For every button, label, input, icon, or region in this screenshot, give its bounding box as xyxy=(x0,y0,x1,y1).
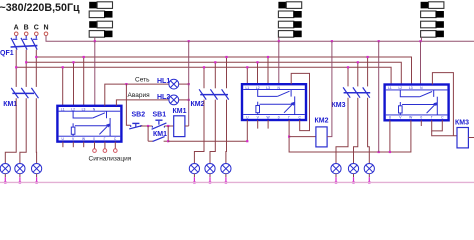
lamp EL3 xyxy=(31,164,41,174)
terminal B xyxy=(24,32,28,36)
wire U2 pin5 to KM2 coil and N rail xyxy=(289,120,411,152)
contact KM1 aux xyxy=(153,137,165,142)
wire bottom neutral line xyxy=(0,181,474,183)
wire KM2 coil left xyxy=(289,136,316,138)
wire KM3 pole 2 to lamp xyxy=(354,98,358,164)
junction N bus x188.7 xyxy=(188,40,190,42)
label Signalizatsiya xyxy=(89,155,132,162)
wire KM1 pole 2 to lamp xyxy=(20,98,26,164)
wire EL5 stub xyxy=(209,174,211,183)
wire tap to KM2 pole x215.3 xyxy=(214,62,216,88)
wire U1 bottom stub W xyxy=(83,142,85,148)
svg-text:КМ3: КМ3 xyxy=(455,120,469,127)
junction tap A U1 xyxy=(62,66,64,68)
lamp EL6 xyxy=(221,164,231,174)
wire KM2 coil to N xyxy=(327,41,332,136)
svg-text:A: A xyxy=(14,24,19,31)
button SB1 xyxy=(152,120,167,129)
wire N to U2 xyxy=(278,41,280,84)
junction EL8 bottom xyxy=(352,181,354,183)
wire tap B to U1 L2 xyxy=(73,62,75,106)
node A phase label xyxy=(14,24,19,31)
junction KM2 tap x215.3 xyxy=(214,61,216,63)
svg-text:SB2: SB2 xyxy=(132,112,146,119)
wire U3 bottom stub 0 xyxy=(420,120,422,126)
svg-text:~380/220В,50Гц: ~380/220В,50Гц xyxy=(0,2,80,14)
wire HL2 to N vertical xyxy=(179,99,189,101)
wire phase B vertical xyxy=(25,50,27,87)
junction U2 tap x257.5 xyxy=(256,61,258,63)
coil KM1 xyxy=(174,116,185,137)
wire KM1 aux right xyxy=(167,126,169,141)
junction HL1 N xyxy=(188,83,190,85)
label KM2 coil xyxy=(315,117,329,124)
lamp EL5 xyxy=(205,164,215,174)
label KM1 coil xyxy=(173,108,187,115)
terminal signal x115.3 xyxy=(114,149,118,153)
label KM1 contactor xyxy=(3,101,17,108)
svg-text:КМ1: КМ1 xyxy=(153,131,167,138)
lamp EL2 xyxy=(15,164,25,174)
terminal signal x104.9 xyxy=(103,149,107,153)
lamp EL1 xyxy=(0,164,10,174)
label Avariya (alarm) xyxy=(128,92,151,99)
svg-text:N: N xyxy=(43,24,48,31)
junction N bus x278.8 xyxy=(278,40,280,42)
wire EL1 stub xyxy=(4,174,6,183)
wire N down from terminal xyxy=(46,36,474,42)
wire tap C to U1 L3 xyxy=(83,57,85,106)
junction U3 pin1 rail xyxy=(389,151,391,153)
label HL1 xyxy=(157,78,170,85)
wire KM1 aux bottom left xyxy=(148,140,153,142)
bypass U3 top pin xyxy=(432,73,453,136)
junction HL2 N xyxy=(188,99,190,101)
wire EL2 stub xyxy=(19,174,21,183)
junction bus B start xyxy=(25,61,27,63)
wire phase A vertical xyxy=(15,50,17,87)
device U2 protection unit xyxy=(242,84,306,120)
junction KM3 tap x357.8 xyxy=(357,61,359,63)
junction SB1 right xyxy=(167,125,169,127)
wire U1 out to HL1 line xyxy=(105,84,169,106)
breaker QF1 pole 2 tick xyxy=(23,38,28,40)
wire tap A to U1 L1 xyxy=(62,67,64,106)
wire EL7 stub xyxy=(335,174,337,183)
wire U1 bottom stub V xyxy=(72,142,74,148)
wire connector X1 to N bus xyxy=(94,37,96,41)
junction SB1 left xyxy=(147,125,149,127)
lamp EL9 xyxy=(364,164,374,174)
wire EL4 stub xyxy=(193,174,195,183)
svg-text:Сеть: Сеть xyxy=(135,76,150,83)
breaker QF1 pole 3 wire top xyxy=(35,36,37,39)
button SB2 xyxy=(129,123,142,128)
svg-text:КМ2: КМ2 xyxy=(315,117,329,124)
wire HL1 to N vertical xyxy=(179,83,189,85)
svg-text:Авария: Авария xyxy=(128,92,151,99)
wire KM2 pole 1 to lamp xyxy=(194,100,204,164)
svg-text:КМ1: КМ1 xyxy=(3,101,17,108)
wire KM3 coil to edge xyxy=(468,137,474,139)
svg-text:L1: L1 xyxy=(388,86,392,90)
contactor KM3 pole x367.6 contact xyxy=(363,87,370,97)
wire N to U3 xyxy=(420,41,422,84)
wire N drop to rail xyxy=(378,41,380,152)
lamp HL2 xyxy=(169,95,179,105)
device U3 protection unit xyxy=(385,85,449,121)
svg-text:L1: L1 xyxy=(61,107,65,111)
junction N bus x378.7 xyxy=(378,40,380,42)
wire phase C vertical xyxy=(35,50,37,87)
wire bus B xyxy=(26,62,401,84)
lamp HL1 xyxy=(169,79,179,89)
wire U2 pin1 down xyxy=(246,120,248,141)
junction KM3 tap x367.6 xyxy=(367,56,369,58)
contactor KM2 pole x226.5 contact xyxy=(222,89,229,99)
svg-text:Г: Г xyxy=(288,115,290,119)
junction EL5 bottom xyxy=(209,181,211,183)
contactor KM2 pole x215.3 contact xyxy=(210,89,217,99)
label KM3 contactor xyxy=(332,102,346,109)
breaker QF1 pole 2 wire top xyxy=(25,36,27,39)
wire tap to KM2 pole x204.0 xyxy=(203,67,205,88)
svg-text:Сигнализация: Сигнализация xyxy=(89,155,132,162)
device U1 protection unit xyxy=(57,106,121,142)
junction EL9 bottom xyxy=(368,181,370,183)
wire KM1 pole 3 to lamp xyxy=(35,98,37,164)
contactor KM3 pole x357.8 contact xyxy=(353,87,360,97)
junction HL1 line SB2 drop xyxy=(125,83,127,85)
svg-text:L3: L3 xyxy=(409,86,413,90)
wire tap to KM3 pole x348.0 xyxy=(347,67,349,86)
node N phase label xyxy=(43,24,48,31)
svg-text:L2: L2 xyxy=(256,86,260,90)
svg-text:L2: L2 xyxy=(398,86,402,90)
wire EL6 stub xyxy=(225,174,227,183)
svg-text:HL2: HL2 xyxy=(157,94,170,101)
svg-text:L3: L3 xyxy=(82,107,86,111)
lamp EL8 xyxy=(348,164,358,174)
svg-text:0: 0 xyxy=(278,115,280,119)
breaker QF1 pole 1 wire top xyxy=(15,36,17,39)
connector X3 rows xyxy=(421,2,444,37)
label QF1 xyxy=(0,50,14,57)
label KM3 coil xyxy=(455,120,469,127)
wire KM3 pole 3 to lamp xyxy=(368,98,370,164)
junction EL3 bottom xyxy=(35,181,37,183)
node C phase label xyxy=(34,24,39,31)
junction KM3 tap x348.0 xyxy=(347,66,349,68)
svg-text:HL1: HL1 xyxy=(157,78,170,85)
coil KM3 xyxy=(457,128,468,148)
svg-text:SB1: SB1 xyxy=(153,112,167,119)
wire EL8 stub xyxy=(353,174,355,183)
lamp EL4 xyxy=(189,164,199,174)
terminal signal x94.5 xyxy=(93,149,97,153)
wire tap to U2 x257.5 xyxy=(257,62,259,84)
breaker QF1 link bar xyxy=(11,46,38,47)
wire KM1 pole 1 to lamp xyxy=(5,98,16,164)
contactor KM1 link bar xyxy=(12,92,34,94)
wire KM3 pole 1 to lamp xyxy=(336,98,348,164)
wire drop to SB2 xyxy=(126,84,130,125)
label KM1 aux xyxy=(153,131,167,138)
wire N vertical control xyxy=(188,41,190,126)
wire tap to U2 x268.0 xyxy=(267,57,269,84)
wire KM1 aux bottom right xyxy=(164,140,169,142)
bypass U2 top pin to bottom pin xyxy=(291,73,309,130)
breaker QF1 pole 3 tick xyxy=(33,38,38,40)
svg-text:C: C xyxy=(34,24,39,31)
junction KM1 aux bottom xyxy=(167,140,169,142)
wire tap to KM3 pole x367.6 xyxy=(367,57,369,86)
svg-text:Г: Г xyxy=(431,116,433,120)
wire SB1 to KM1 coil xyxy=(164,125,173,127)
svg-text:Г: Г xyxy=(104,137,106,141)
wire aux line to U2 pin xyxy=(168,140,247,142)
breaker QF1 pole 3 contact xyxy=(31,38,37,50)
breaker QF1 pole 2 contact xyxy=(21,38,27,50)
wire U2 bottom stub V xyxy=(257,120,259,129)
wire KM2 pole 3 to lamp xyxy=(225,100,228,164)
wire KM1 coil to N xyxy=(185,125,189,127)
junction EL1 bottom xyxy=(4,181,6,183)
junction N rail drop xyxy=(378,151,380,153)
junction U2 tap x247.3 xyxy=(246,66,248,68)
svg-text:L2: L2 xyxy=(71,107,75,111)
junction KM2 tap x204.0 xyxy=(203,66,205,68)
lamp EL7 xyxy=(331,164,341,174)
svg-text:0: 0 xyxy=(420,116,422,120)
wire connector X2 to N bus xyxy=(278,37,280,41)
wire connector X3 to N bus xyxy=(420,37,422,41)
contactor KM1 pole 2 contact xyxy=(21,88,28,98)
junction KM2 tap x226.5 xyxy=(225,56,227,58)
node B phase label xyxy=(24,24,29,31)
junction bus C start xyxy=(35,56,37,58)
junction N bus x331.9 xyxy=(331,40,333,42)
breaker QF1 pole 1 contact xyxy=(11,38,17,50)
label HL2 xyxy=(157,94,170,101)
wire bus C xyxy=(36,57,411,85)
wire U1 signal pin x94.5 xyxy=(94,142,96,149)
svg-text:B: B xyxy=(24,24,29,31)
junction tap B U1 xyxy=(72,61,74,63)
label KM2 contactor xyxy=(191,101,205,108)
junction EL7 bottom xyxy=(335,181,337,183)
label SB2 xyxy=(132,112,146,119)
contactor KM1 pole 1 contact xyxy=(11,88,18,98)
wire U1 signal pin x104.9 xyxy=(104,142,106,149)
wire U1 alarm out to HL2 line xyxy=(116,100,169,106)
label supply ~380/220V 50Hz xyxy=(0,2,80,14)
contactor KM3 pole x348.0 contact xyxy=(343,87,350,97)
wire U3 pin5 to KM3 coil xyxy=(432,131,457,136)
label SB1 xyxy=(153,112,167,119)
wire tap to KM3 pole x357.8 xyxy=(357,62,359,86)
junction U2 tap x268.0 xyxy=(267,56,269,58)
breaker QF1 pole 1 tick xyxy=(13,38,17,40)
wire N to U1 xyxy=(94,41,96,106)
wire EL3 stub xyxy=(36,174,38,183)
svg-text:QF1: QF1 xyxy=(0,50,14,57)
junction EL4 bottom xyxy=(193,181,195,183)
svg-text:L3: L3 xyxy=(266,86,270,90)
contactor KM1 pole 3 contact xyxy=(31,88,38,98)
junction KM2 coil left xyxy=(288,136,290,138)
svg-text:L1: L1 xyxy=(245,86,249,90)
connector X2 rows xyxy=(278,2,301,37)
junction tap C U1 xyxy=(83,56,85,58)
contactor KM3 link bar xyxy=(344,92,371,94)
wire bus A xyxy=(16,67,391,84)
svg-text:0: 0 xyxy=(93,137,95,141)
connector X1 rows xyxy=(89,2,112,37)
wire U2 bottom stub W xyxy=(267,120,269,129)
junction EL2 bottom xyxy=(19,181,21,183)
wire U3 U-bridge xyxy=(432,120,443,131)
contactor KM2 pole x204.0 contact xyxy=(199,89,206,99)
junction N bus x420.5 xyxy=(419,40,421,42)
wire KM1 aux left xyxy=(147,126,149,141)
terminal A xyxy=(14,32,18,36)
coil KM2 xyxy=(316,127,327,147)
terminal C xyxy=(35,32,39,36)
junction EL6 bottom xyxy=(225,181,227,183)
wire U1 bottom stub U xyxy=(62,142,64,148)
wire SB2 to SB1 xyxy=(141,125,153,127)
terminal N xyxy=(44,32,48,36)
wire tap to KM2 pole x226.5 xyxy=(226,57,228,88)
junction aux line U2 xyxy=(246,140,248,142)
junction N bus x94.8 xyxy=(94,40,96,42)
svg-text:КМ3: КМ3 xyxy=(332,102,346,109)
wire EL9 stub xyxy=(368,174,370,183)
label Set (network) xyxy=(135,76,150,83)
wire tap to U2 x247.3 xyxy=(246,67,248,84)
junction bus A start xyxy=(15,66,17,68)
contactor KM2 link bar xyxy=(200,94,228,96)
wire U1 signal pin x115.3 xyxy=(114,142,116,149)
svg-text:КМ2: КМ2 xyxy=(191,101,205,108)
wire KM2 pole 2 to lamp xyxy=(210,100,215,164)
svg-text:КМ1: КМ1 xyxy=(173,108,187,115)
wire U3 pin1 to rail xyxy=(389,120,391,152)
